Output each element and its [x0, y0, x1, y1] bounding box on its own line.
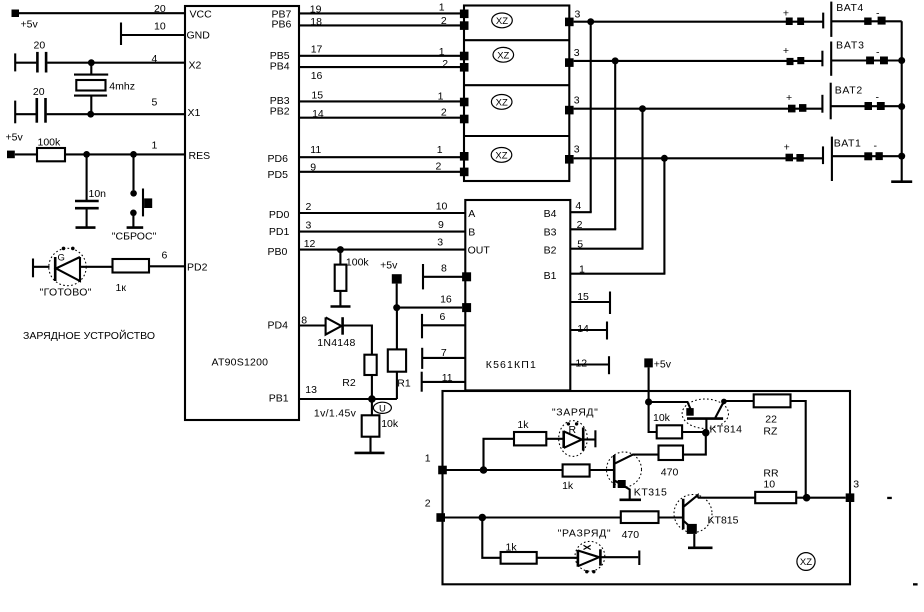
svg-text:-: - [876, 92, 880, 104]
resistor R2 [342, 355, 376, 399]
XZ3 pin2 pad [460, 115, 469, 124]
svg-text:R2: R2 [342, 377, 356, 389]
node KT814 base junction [702, 429, 710, 437]
svg-text:1N4148: 1N4148 [317, 337, 355, 349]
node X2-crystal junction [88, 59, 95, 66]
svg-text:20: 20 [33, 86, 45, 98]
svg-text:U: U [379, 404, 386, 415]
ground (100k) [331, 305, 351, 308]
svg-text:14: 14 [577, 323, 589, 335]
svg-text:22: 22 [765, 414, 777, 426]
svg-text:4: 4 [575, 200, 581, 212]
resistor 10k (KT814 base) [649, 402, 706, 438]
svg-text:PD1: PD1 [269, 226, 290, 238]
XZ3 pin3 pad [565, 95, 580, 115]
LED HL3 РАЗРЯД [558, 527, 640, 573]
node RES-C3 junction [83, 151, 90, 158]
module pin 1 pad [425, 453, 447, 475]
svg-text:3: 3 [574, 144, 580, 156]
svg-text:KT315: KT315 [634, 487, 667, 499]
wire XZ1 out to BAT4 [574, 21, 824, 23]
svg-text:19: 19 [310, 4, 322, 16]
svg-text:A: A [468, 208, 475, 220]
svg-text:1: 1 [425, 453, 431, 465]
svg-text:9: 9 [438, 219, 444, 231]
wire PB6 to XZ1 pin2 [299, 15, 464, 28]
svg-text:B2: B2 [544, 245, 557, 257]
svg-text:+5v: +5v [6, 132, 24, 144]
svg-text:X1: X1 [188, 107, 201, 119]
svg-text:1: 1 [439, 46, 445, 58]
svg-text:PB2: PB2 [270, 106, 290, 118]
svg-text:470: 470 [661, 467, 679, 479]
pin 8 stub [423, 262, 471, 289]
svg-text:RZ: RZ [763, 426, 778, 438]
wire base junction to 470 [683, 433, 706, 455]
svg-text:PB0: PB0 [268, 246, 288, 258]
node +5v module junction [645, 398, 652, 405]
pin 6 stub [422, 311, 465, 338]
svg-text:BAT3: BAT3 [836, 40, 864, 52]
svg-text:13: 13 [305, 384, 317, 396]
label minus (bottom right) [913, 583, 918, 585]
pin 11 stub [422, 372, 466, 392]
node B4 tap [587, 18, 594, 25]
svg-text:3: 3 [853, 479, 859, 491]
node U symbol [314, 402, 392, 420]
wire B1 vertical [663, 158, 665, 273]
LED HL1 ГОТОВО [33, 247, 113, 299]
XZ2 pin2 pad [460, 63, 469, 72]
node RES-button junction [130, 151, 137, 158]
wire XZ3 out to BAT2 [574, 108, 822, 110]
svg-text:12: 12 [575, 358, 587, 370]
svg-text:-: - [876, 8, 880, 20]
svg-text:RES: RES [189, 150, 211, 162]
svg-text:11: 11 [310, 144, 321, 156]
svg-text:+: + [786, 92, 792, 104]
resistor 1k (ЗАРЯД LED) [514, 419, 564, 446]
XZ4 pin3 pad [565, 144, 580, 164]
svg-text:3: 3 [306, 220, 312, 232]
svg-text:16: 16 [311, 70, 323, 82]
svg-text:18: 18 [310, 16, 322, 28]
svg-text:B3: B3 [544, 226, 557, 238]
svg-text:2: 2 [577, 219, 583, 231]
svg-text:VCC: VCC [190, 8, 213, 20]
svg-text:PD4: PD4 [268, 319, 289, 331]
svg-text:"ГОТОВО": "ГОТОВО" [40, 287, 92, 299]
svg-text:5: 5 [577, 239, 583, 251]
svg-text:12: 12 [304, 238, 316, 250]
svg-text:10: 10 [154, 21, 166, 33]
wire KT814 emitter [649, 402, 691, 409]
wire PD1 to B [299, 219, 465, 232]
ground stub GND pin [121, 21, 185, 46]
svg-text:+5v: +5v [380, 259, 398, 271]
svg-text:XZ: XZ [800, 557, 812, 568]
wire RES net [65, 140, 185, 155]
power +5v terminal (module) [644, 358, 671, 402]
capacitor C2 20 [15, 86, 45, 123]
svg-text:1: 1 [438, 90, 444, 102]
svg-text:20: 20 [154, 3, 166, 15]
battery BAT2 [786, 83, 902, 120]
pin 7 stub [422, 347, 465, 369]
svg-text:470: 470 [622, 529, 640, 541]
LED HL2 ЗАРЯД [552, 406, 598, 456]
crystal Q 4mhz [74, 63, 135, 114]
wire XZ4 out to BAT1 [574, 157, 823, 159]
node B1 tap [661, 155, 668, 162]
svg-text:1k: 1k [562, 480, 574, 492]
wire PD5 to XZ4 pin2 [299, 160, 464, 173]
node B3 tap [612, 57, 619, 64]
module XZ symbol [797, 553, 815, 571]
svg-text:10: 10 [763, 479, 775, 491]
node +5v pin16 junction [393, 304, 400, 311]
svg-text:4: 4 [152, 53, 158, 65]
svg-text:3: 3 [575, 9, 581, 21]
svg-text:OUT: OUT [468, 245, 491, 257]
svg-text:7: 7 [441, 347, 447, 359]
pin 12 stub [570, 356, 609, 374]
svg-text:KT814: KT814 [710, 424, 743, 436]
svg-text:2: 2 [441, 106, 447, 118]
resistor 10k (U divider) [362, 399, 399, 453]
IC U2 К561КП1 body [465, 200, 570, 390]
svg-text:100k: 100k [38, 137, 62, 149]
wire PB0 to OUT [299, 237, 465, 250]
transistor Q1 KT814 [682, 399, 742, 436]
svg-text:1v/1.45v: 1v/1.45v [314, 408, 357, 420]
XZ4 pin2 pad [460, 168, 469, 177]
wire PD6 to XZ4 pin1 [299, 144, 464, 157]
svg-text:2: 2 [436, 160, 442, 172]
svg-text:BAT1: BAT1 [834, 137, 861, 149]
svg-text:BAT4: BAT4 [836, 2, 863, 14]
resistor RZ 22 [724, 394, 806, 497]
wire diode to R2 [343, 326, 372, 355]
node BAT3 bus junction [898, 57, 905, 64]
wire pin1 to KT315 base [443, 469, 563, 471]
XZ1 pin1 pad [460, 10, 469, 19]
svg-text:-: - [874, 140, 878, 152]
resistor RR 10 [755, 468, 846, 504]
svg-text:+5v: +5v [654, 358, 672, 370]
svg-text:PD2: PD2 [187, 261, 208, 273]
wire branch to 1k (РАЗРЯД) [482, 518, 500, 558]
svg-text:R1: R1 [397, 378, 411, 390]
svg-text:"РАЗРЯД": "РАЗРЯД" [558, 527, 611, 539]
wire PB2 to XZ3 pin2 [299, 106, 464, 120]
wire KT815 collector to RR [698, 497, 756, 499]
svg-text:16: 16 [440, 294, 452, 306]
wire battery minus bus [901, 21, 903, 181]
module XZ2 symbol [493, 47, 514, 62]
wire XZ2 out to BAT3 [574, 60, 823, 62]
pushbutton SB1 СБРОС [112, 154, 157, 242]
svg-text:15: 15 [577, 291, 589, 303]
resistor 1k (pin1-KT315) [562, 464, 613, 491]
node X1-crystal junction [87, 111, 94, 118]
wire PB1 net [299, 384, 397, 399]
wire VCC net [19, 3, 185, 15]
resistor R1 [388, 308, 411, 399]
XZ3 pin1 pad [460, 98, 469, 107]
svg-text:1к: 1к [116, 282, 127, 294]
svg-text:XZ: XZ [495, 151, 507, 162]
svg-text:-: - [876, 47, 880, 59]
wire B2 to tap [570, 239, 643, 251]
wire branch to 1k (ЗАРЯД) [484, 439, 515, 470]
svg-text:R: R [569, 424, 577, 436]
svg-text:X2: X2 [189, 60, 202, 72]
svg-text:10k: 10k [653, 412, 671, 424]
svg-text:ЗАРЯДНОЕ УСТРОЙСТВО: ЗАРЯДНОЕ УСТРОЙСТВО [23, 329, 155, 342]
svg-text:11: 11 [442, 372, 453, 384]
IC U1 AT90S1200 body [185, 6, 299, 420]
svg-text:+: + [784, 142, 790, 154]
svg-text:8: 8 [301, 315, 307, 327]
module pin 2 pad [425, 497, 445, 521]
svg-text:10: 10 [436, 200, 448, 212]
svg-text:PD5: PD5 [268, 169, 289, 181]
XZ2 pin3 pad [565, 47, 580, 67]
svg-text:15: 15 [311, 89, 323, 101]
svg-text:"СБРОС": "СБРОС" [112, 231, 157, 243]
svg-text:"ЗАРЯД": "ЗАРЯД" [552, 406, 598, 418]
module pin 3 pad [846, 479, 860, 503]
svg-text:9: 9 [310, 162, 316, 174]
node pin1 branch junction [480, 466, 488, 474]
wire X1 net [47, 97, 185, 115]
XZ2 pin1 pad [460, 52, 469, 61]
divider XZ1/XZ2 [464, 39, 569, 41]
ground (battery bus) [891, 180, 912, 183]
XZ4 pin1 pad [460, 152, 469, 161]
module XZ1 symbol [492, 13, 513, 28]
svg-text:8: 8 [441, 262, 447, 274]
svg-text:100k: 100k [346, 256, 370, 268]
resistor 1k (РАЗРЯД LED) [501, 541, 578, 563]
power +5v terminal (top left) [12, 10, 39, 31]
svg-text:KT815: KT815 [708, 515, 739, 527]
svg-text:B: B [468, 226, 475, 238]
transistor Q2 KT315 [607, 452, 667, 500]
svg-text:1k: 1k [506, 541, 518, 553]
wire PB5 to XZ2 pin1 [299, 44, 464, 58]
svg-text:3: 3 [574, 95, 580, 107]
svg-text:G: G [58, 253, 65, 264]
svg-text:1: 1 [152, 140, 158, 152]
battery BAT4 [783, 2, 902, 37]
svg-text:20: 20 [34, 40, 46, 52]
XZ1 pin3 pad [565, 9, 581, 27]
svg-text:AT90S1200: AT90S1200 [212, 357, 269, 369]
svg-text:10k: 10k [381, 418, 399, 430]
ground (KT315) [620, 498, 642, 501]
svg-text:PD0: PD0 [269, 209, 290, 221]
svg-text:1: 1 [579, 264, 585, 276]
wire PB3 to XZ3 pin1 [299, 89, 464, 102]
node U measurement junction [368, 395, 376, 403]
svg-text:PB1: PB1 [269, 393, 289, 405]
svg-text:14: 14 [312, 108, 324, 120]
wire B1 to tap [570, 264, 665, 276]
battery BAT3 [783, 40, 902, 76]
power +5v terminal (RES) [6, 132, 24, 159]
wire PB4 to XZ2 pin2 [299, 58, 464, 82]
wire PD4 net [299, 315, 326, 327]
svg-text:5: 5 [152, 97, 158, 109]
svg-text:3: 3 [574, 47, 580, 59]
resistor 470 (KT815 base) [621, 511, 683, 541]
svg-text:+: + [783, 45, 789, 57]
node BAT1 bus junction [898, 153, 905, 160]
wire B4 to tap [570, 200, 591, 212]
pin 14 stub [570, 322, 607, 340]
svg-text:К561КП1: К561КП1 [486, 359, 536, 371]
wire PD2 net [149, 250, 185, 267]
module detail box body [443, 391, 851, 584]
svg-text:XZ: XZ [496, 16, 508, 27]
svg-text:1: 1 [437, 144, 443, 156]
battery BAT1 [784, 137, 902, 181]
module XZ3 symbol [491, 95, 512, 110]
svg-text:17: 17 [311, 44, 323, 56]
pin 15 stub [570, 291, 610, 314]
svg-text:GND: GND [187, 29, 211, 41]
svg-text:3: 3 [437, 237, 443, 249]
svg-text:2: 2 [441, 15, 447, 27]
node BAT2 bus junction [898, 103, 905, 110]
node RZ-RR junction [803, 494, 811, 502]
ground (10k) [355, 452, 385, 455]
ground (C3) [76, 226, 96, 229]
wire B3 vertical [614, 61, 616, 229]
svg-text:PB6: PB6 [272, 19, 292, 31]
label minus (pin3) [887, 497, 892, 499]
svg-text:2: 2 [425, 497, 431, 509]
svg-text:B4: B4 [544, 208, 557, 220]
svg-text:PB4: PB4 [270, 61, 290, 73]
divider XZ3/XZ4 [464, 135, 569, 137]
capacitor C3 10n [75, 154, 106, 227]
resistor 470 (KT315 collector) [659, 446, 684, 479]
svg-text:6: 6 [162, 250, 168, 262]
wire pin2 to 470 [443, 516, 621, 518]
svg-text:2: 2 [442, 58, 448, 70]
ground (KT815) [688, 546, 713, 549]
svg-text:PD6: PD6 [268, 153, 289, 165]
power +5v terminal (R1) [380, 259, 402, 307]
module XZ4 symbol [491, 148, 512, 163]
resistor 100k (PB0 pulldown) [335, 250, 370, 307]
svg-text:1k: 1k [517, 419, 529, 431]
wire B2 vertical [641, 109, 643, 249]
svg-text:4mhz: 4mhz [109, 81, 135, 93]
XZ1 pin2 pad [460, 21, 469, 30]
svg-text:+5v: +5v [21, 19, 39, 31]
wire X2 net [47, 53, 185, 65]
svg-text:XZ: XZ [497, 50, 509, 61]
capacitor C1 20 [15, 40, 46, 73]
svg-text:B1: B1 [544, 270, 557, 282]
node pin2 branch junction [479, 514, 487, 522]
svg-text:1: 1 [439, 1, 445, 13]
svg-text:10n: 10n [89, 188, 107, 200]
resistor 100k (RES pullup) [15, 137, 65, 162]
divider XZ2/XZ3 [464, 84, 569, 86]
pin 16 pad [462, 303, 471, 312]
wire PB7 to XZ1 pin1 [299, 1, 464, 15]
resistor 1к (PD2) [113, 259, 150, 294]
transistor Q3 KT815 [674, 495, 739, 548]
svg-text:6: 6 [440, 311, 446, 323]
svg-text:2: 2 [306, 201, 312, 213]
wire B3 to tap [570, 219, 616, 231]
wire PD0 to A [299, 200, 465, 213]
node B2 tap [639, 105, 646, 112]
node PB0-100k junction [337, 246, 344, 253]
ground (button) [127, 226, 144, 229]
wire B4 vertical [590, 22, 592, 213]
diode VD1 1N4148 [317, 317, 355, 349]
relay module block XZ1-XZ4 outer body [464, 6, 569, 182]
svg-text:BAT2: BAT2 [835, 84, 863, 96]
svg-text:XZ: XZ [496, 98, 508, 109]
wire +5v to pin16 [397, 294, 462, 308]
